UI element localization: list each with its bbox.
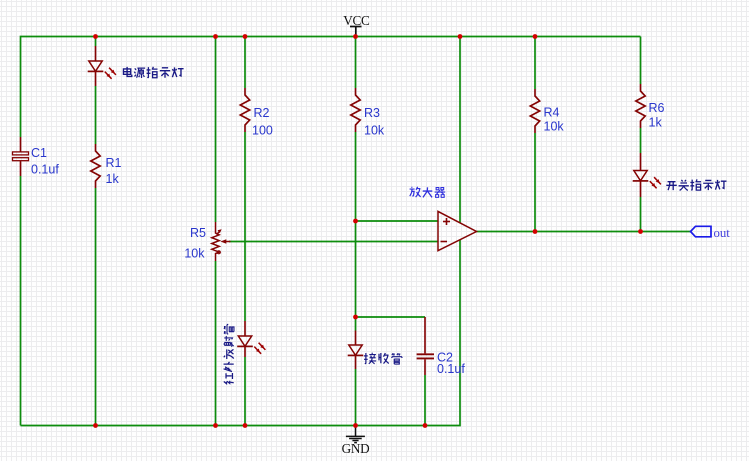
svg-text:10k: 10k <box>544 120 565 134</box>
wire IR LED to bottom <box>244 357 246 426</box>
label amplifier (放大器) <box>410 187 446 198</box>
wire bottom rail GND <box>21 240 461 426</box>
wire inverting input <box>229 241 438 243</box>
capacitor C2 <box>417 317 434 375</box>
ground GND <box>346 426 365 443</box>
wire R4 to output <box>534 133 536 232</box>
wire column R2 top <box>244 37 246 89</box>
wire left column lower <box>20 176 22 426</box>
junction top LED1 <box>93 34 98 39</box>
capacitor C1 <box>13 137 29 176</box>
svg-text:10k: 10k <box>184 247 205 261</box>
wire column R6 <box>640 37 642 85</box>
junction top R5 <box>213 34 218 39</box>
wire column R5 top <box>215 37 217 223</box>
resistor R6 <box>636 84 645 128</box>
svg-text:R4: R4 <box>544 106 560 120</box>
junction output R6 <box>638 229 643 234</box>
svg-text:R6: R6 <box>649 101 665 115</box>
junction bottom IR <box>243 423 248 428</box>
svg-text:100: 100 <box>252 124 273 138</box>
wire column R4 <box>534 37 536 90</box>
label infrared emitter (红外发射管) vertical <box>224 324 234 383</box>
wire LED3 to output <box>640 197 642 232</box>
junction receiver node <box>353 315 358 320</box>
junction noninverting node <box>353 219 358 224</box>
svg-text:1k: 1k <box>649 116 663 130</box>
wire noninverting input <box>356 220 439 222</box>
label power indicator (电源指示灯) <box>123 67 183 78</box>
wire top rail VCC <box>21 37 641 138</box>
svg-text:out: out <box>714 226 731 240</box>
svg-text:0.1uf: 0.1uf <box>437 362 465 376</box>
junction output R4 <box>533 229 538 234</box>
junction bottom R5 <box>213 423 218 428</box>
wire R2 to IR LED <box>244 132 246 321</box>
resistor R3 <box>351 88 360 132</box>
svg-text:R5: R5 <box>190 226 206 240</box>
resistor R4 <box>530 89 539 133</box>
wire receiver to bottom <box>355 369 357 426</box>
wire LED1 to R1 <box>95 86 97 144</box>
svg-text:GND: GND <box>342 441 370 456</box>
junction bottom R1 <box>93 423 98 428</box>
LED infrared emitter <box>237 321 265 357</box>
wire column R3 top <box>355 37 357 89</box>
junction bottom GND <box>353 423 358 428</box>
svg-text:10k: 10k <box>364 124 385 138</box>
resistor R1 <box>91 144 100 188</box>
wire opamp output <box>477 231 691 233</box>
wire R3 down to receiver <box>355 132 357 331</box>
svg-text:R2: R2 <box>254 106 270 120</box>
svg-text:R1: R1 <box>106 156 122 170</box>
wire receiver to C2 <box>356 316 426 318</box>
potentiometer R5 <box>212 222 231 261</box>
wire R5 to bottom <box>215 261 217 426</box>
port out <box>691 226 731 240</box>
diode receiver <box>348 331 364 370</box>
junction top R2 <box>243 34 248 39</box>
svg-text:R3: R3 <box>364 106 380 120</box>
label receiver (接收管) <box>364 353 402 364</box>
LED D1 power indicator <box>88 46 116 86</box>
wire column LED1 top <box>95 37 97 47</box>
junction top R3 <box>353 34 358 39</box>
junction top R4 <box>533 34 538 39</box>
wire C2 to bottom <box>424 375 426 426</box>
wire mid column upper <box>459 37 461 224</box>
svg-text:C1: C1 <box>31 146 47 160</box>
LED switch indicator <box>633 153 661 197</box>
label switch indicator (开关指示灯) <box>666 179 726 190</box>
op-amp U1 amplifier <box>438 211 477 250</box>
wire R1 to bottom <box>95 188 97 426</box>
junction top mid <box>458 34 463 39</box>
svg-text:VCC: VCC <box>343 13 370 28</box>
junction bottom C2 <box>423 423 428 428</box>
resistor R2 <box>240 88 249 132</box>
power port VCC <box>343 13 370 37</box>
svg-text:1k: 1k <box>106 172 120 186</box>
wire R6 to LED3 <box>640 128 642 153</box>
svg-text:0.1uf: 0.1uf <box>31 163 59 177</box>
